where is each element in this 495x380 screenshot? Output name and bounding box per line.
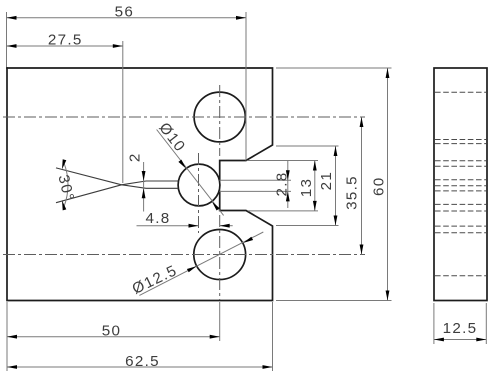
side view hidden line 5 — [435, 165, 486, 167]
dimension 13 extension upper — [248, 160, 318, 162]
svg-text:Ø10: Ø10 — [155, 120, 188, 156]
diameter 12.5 lower-left arrow — [187, 266, 197, 272]
side view hidden line 7 — [435, 185, 486, 187]
dimension 62.5 left arrow — [7, 365, 17, 369]
side view hidden line 6 — [435, 179, 486, 181]
dimension 21 lower arrow — [334, 216, 338, 226]
30 degree notch edge extended upper — [56, 168, 122, 185]
dimension 4.8 right arrow — [220, 224, 230, 228]
dimension 2 line vertical — [143, 162, 145, 212]
center line upper hole vertical — [219, 85, 221, 156]
diameter 10 leader line — [157, 130, 224, 216]
side view hidden line 11 — [435, 225, 486, 227]
dimension 2.8 extension lower — [220, 190, 292, 192]
dimension 27.5 right arrow — [113, 44, 123, 48]
svg-text:Ø12.5: Ø12.5 — [130, 262, 181, 298]
dimension 56 right arrow — [236, 16, 246, 20]
dimension 35.5 upper arrow — [360, 117, 364, 127]
dimension 4.8 line right segment — [220, 225, 233, 227]
svg-text:2: 2 — [126, 152, 143, 162]
notch lower face — [7, 68, 273, 301]
diameter 10 lower arrow — [212, 202, 220, 211]
dimension 60 line vertical — [387, 68, 389, 301]
side view hidden line 13 — [435, 275, 486, 277]
side view hidden line 10 — [435, 210, 486, 212]
dimension 50 right arrow — [210, 335, 220, 339]
dimension 60 extension lower — [276, 300, 392, 302]
dimension 62.5 extension right — [272, 302, 274, 371]
dimension 60 lower arrow — [386, 291, 390, 301]
svg-text:21: 21 — [318, 171, 335, 191]
dimension 4.8 left arrow — [189, 224, 199, 228]
svg-text:50: 50 — [102, 322, 122, 339]
dimension 27.5 extension line right (to V tip) — [122, 41, 124, 183]
dimension 2 upper arrow — [142, 171, 146, 181]
diameter 10 upper arrow — [178, 160, 186, 169]
dimension 12.5 left arrow — [434, 338, 444, 342]
dimension 56 extension line left — [6, 12, 8, 67]
dimension 12.5 extension right — [485, 303, 487, 344]
svg-text:62.5: 62.5 — [125, 353, 160, 370]
slot taper lower edge to V tip — [122, 185, 147, 189]
dimension 13 extension lower — [248, 210, 318, 212]
side view outline — [434, 68, 487, 301]
dimension 35.5 lower arrow — [360, 245, 364, 255]
dimension 2.8 line vertical — [287, 161, 289, 209]
dimension 2.8 upper arrow — [286, 170, 290, 180]
dimension 21 upper arrow — [334, 146, 338, 156]
dimension 62.5 right arrow — [263, 365, 273, 369]
dimension 50 left arrow — [7, 335, 17, 339]
slot end hole D10 — [178, 164, 220, 206]
svg-text:60: 60 — [370, 177, 387, 197]
side view hidden line 1 — [435, 91, 486, 93]
svg-text:13: 13 — [298, 178, 315, 198]
dimension 50 line — [7, 336, 220, 338]
dimension 50 extension left — [6, 302, 8, 371]
dimension 27.5 left arrow — [7, 44, 17, 48]
svg-text:30°: 30° — [55, 173, 78, 203]
dimension 56 left arrow — [7, 16, 17, 20]
dimension 2.8 extension upper — [220, 179, 292, 181]
lower loading hole D12.5 — [194, 230, 246, 280]
center line lower hole vertical — [219, 215, 221, 300]
side view hidden line 2 — [435, 139, 486, 141]
side view hidden line 4 — [435, 160, 486, 162]
svg-text:2.8: 2.8 — [273, 171, 290, 196]
dimension 12.5 right arrow — [476, 338, 486, 342]
upper loading hole D12.5 — [194, 92, 245, 142]
30 degree lower arrow — [62, 200, 66, 210]
dimension 13 lower arrow — [313, 201, 317, 211]
diameter 12.5 leader line — [139, 232, 263, 295]
dimension 12.5 line — [434, 339, 486, 341]
dimension 13 upper arrow — [313, 161, 317, 171]
slot taper upper edge to V tip — [122, 181, 147, 185]
svg-text:4.8: 4.8 — [145, 210, 170, 227]
center line D10 hole vertical — [198, 153, 200, 233]
svg-text:27.5: 27.5 — [48, 31, 83, 48]
dimension 2.8 lower arrow — [286, 191, 290, 201]
dimension 62.5 line — [7, 366, 273, 368]
dimension 4.8 line left segment — [137, 225, 199, 227]
center line upper hole horizontal — [3, 116, 365, 118]
dimension 13 line vertical — [314, 161, 316, 211]
svg-text:35.5: 35.5 — [343, 175, 360, 210]
dimension 56 line — [7, 17, 247, 19]
dimension 27.5 line — [7, 45, 123, 47]
left slot lower edge — [146, 187, 178, 189]
svg-text:12.5: 12.5 — [443, 320, 478, 337]
side view hidden line 8 — [435, 190, 486, 192]
side view hidden line 3 — [435, 143, 486, 145]
side view hidden line 9 — [435, 203, 486, 205]
dimension 50 extension right (hole center extended) — [219, 302, 221, 341]
dimension 21 line vertical — [335, 146, 337, 226]
30 degree upper arrow — [62, 159, 66, 169]
dimension 56 extension line right (tangent to upper hole) — [245, 12, 247, 161]
dimension 60 upper arrow — [386, 68, 390, 78]
center line lower hole horizontal — [3, 254, 365, 256]
dimension 35.5 line vertical — [361, 117, 363, 255]
diameter 12.5 upper-right arrow — [243, 237, 253, 243]
dimension 60 extension upper — [276, 67, 392, 69]
dimension 2 lower arrow — [142, 188, 146, 198]
side view hidden line 12 — [435, 232, 486, 234]
30 degree notch edge extended lower — [56, 185, 122, 203]
30 degree dimension arc — [64, 163, 68, 207]
dimension 21 extension lower — [276, 225, 339, 227]
left slot upper edge — [146, 180, 178, 182]
front view outline of specimen — [7, 68, 273, 180]
dimension 12.5 extension left — [433, 303, 435, 344]
svg-text:56: 56 — [115, 3, 134, 20]
dimension 21 extension upper — [276, 145, 339, 147]
